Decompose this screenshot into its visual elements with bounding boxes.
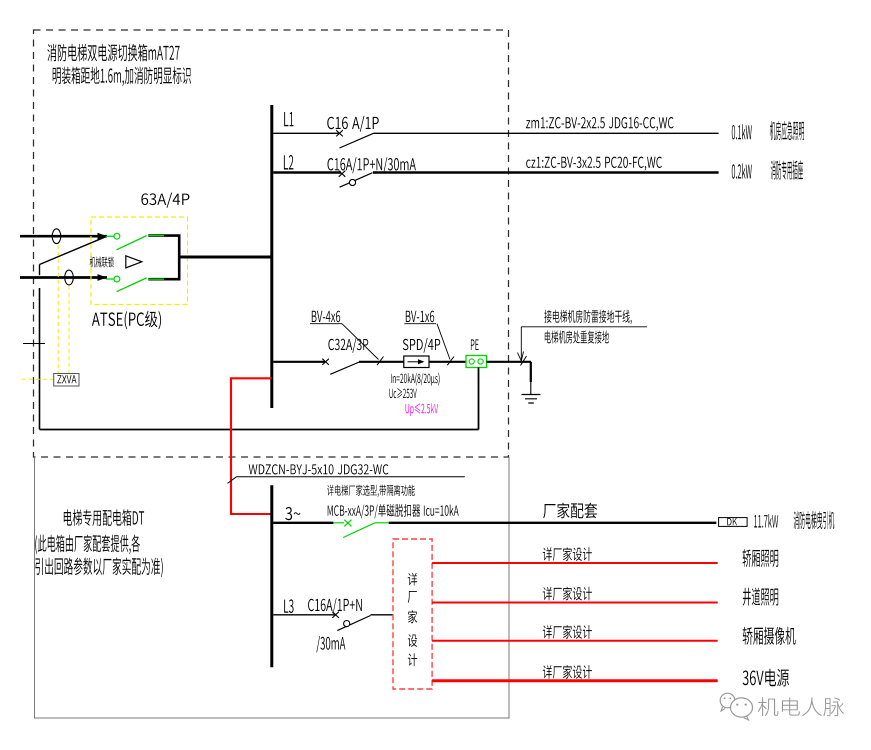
label box title line2 (53, 67, 191, 87)
label load shaft lighting (743, 588, 778, 606)
enclosure mAT27 dashed box (34, 30, 509, 457)
PE terminal circles (469, 359, 474, 364)
label vertical char 家 (408, 610, 417, 623)
breaker 3~ x-mark green (344, 520, 351, 527)
ATSE contact stub 1 (106, 235, 114, 237)
label BV-4x6 (312, 311, 340, 323)
wire L2 seg b (373, 171, 719, 173)
label load L1 (770, 121, 804, 140)
wire L3 seg a (273, 614, 335, 616)
yellow drop line 2 (68, 286, 70, 374)
switch blade changeover (40, 236, 108, 264)
arrowhead source 1 (98, 233, 108, 240)
label factory supplied (543, 503, 597, 519)
label BV-1x6 (406, 311, 434, 323)
underline BV-1x6 (404, 323, 436, 325)
cable marker source 2 (65, 270, 74, 285)
wire 3~ green seg a (333, 522, 344, 524)
wire spd seg d (487, 361, 532, 363)
label power DK (754, 514, 778, 528)
wire red output car lighting (432, 562, 718, 564)
wire PE return vertical (478, 368, 480, 430)
PE terminal box (466, 356, 487, 368)
leader earth arrow (518, 352, 524, 362)
label breaker L3 (308, 598, 362, 614)
leader BV-4x6 (342, 324, 379, 360)
ZXVA box (54, 374, 79, 387)
yellow horiz line (22, 378, 54, 380)
ATSE contact circle 1 (114, 233, 120, 239)
label design note 4 (543, 665, 592, 679)
wire incoming source 2 (20, 276, 107, 279)
breaker L3 x-mark (332, 612, 339, 618)
ATSE contact circle 2 (114, 276, 120, 282)
label mcb note line2 (328, 504, 459, 518)
wire 3~ seg b (389, 522, 717, 524)
label design note 2 (543, 587, 592, 601)
logo text jidianrenmai (758, 697, 844, 716)
label 3~ (285, 507, 300, 520)
wire 3~ seg a (273, 522, 333, 524)
SPD device box (404, 356, 429, 368)
wire L1 seg b (374, 132, 719, 134)
breaker L3 blade (337, 616, 370, 631)
wire L1 seg a (273, 132, 339, 134)
label power L1 (732, 124, 752, 139)
breaker L3 rcd circle (344, 621, 350, 627)
leader feeder tick (228, 477, 237, 484)
enclosure DT solid box (35, 457, 510, 718)
terminal tick c (521, 356, 527, 366)
label cable zm1 (526, 117, 674, 131)
breaker L2 x-mark (339, 171, 346, 177)
wire L2 seg a (273, 171, 341, 173)
label L3 (284, 599, 293, 613)
ATSE interlock triangle (126, 256, 142, 268)
label SPD/4P (403, 338, 440, 353)
wire blade stub down (39, 265, 41, 276)
wire spd seg c (429, 361, 466, 363)
label mechanical interlock (90, 256, 114, 267)
label DT note line2 (35, 558, 162, 578)
wire spd seg b (359, 361, 404, 363)
label PE (471, 339, 479, 350)
ATSE blade 2 green (117, 278, 147, 292)
breaker spd blade (330, 362, 360, 375)
manufacturer design dashed box (393, 539, 432, 689)
label feeder cable (249, 464, 389, 474)
ATSE green seg top (148, 235, 164, 237)
breaker L1 blade (340, 133, 374, 148)
label L2 (284, 155, 294, 170)
label power L2 (732, 163, 752, 178)
label Up spec (406, 403, 439, 416)
wire feeder red link (231, 378, 272, 514)
label mcb note line1 (327, 485, 415, 497)
label L1 (284, 112, 293, 126)
label vertical char 详 (408, 573, 417, 586)
label load DK (794, 511, 835, 529)
wire PE down leg left (39, 288, 41, 430)
logo wechat small bubble (720, 693, 735, 708)
ATSE contact stub 2 (106, 278, 114, 280)
breaker L1 x-mark (336, 130, 343, 136)
label DK (727, 518, 737, 525)
wire spd seg a (273, 361, 325, 363)
label ATSE PC (92, 311, 161, 330)
breaker spd x-mark (322, 359, 329, 365)
leader earth vertical (520, 327, 522, 361)
label breaker L1 (327, 116, 378, 132)
terminal tick a (377, 357, 384, 366)
label breaker C32 (328, 338, 368, 353)
bus main vertical (270, 105, 273, 408)
ATSE yellow dashed outline (91, 217, 188, 305)
terminal tick b (447, 357, 454, 366)
label load car lighting (743, 549, 779, 567)
logo wechat big bubble (731, 698, 753, 717)
SPD symbol arrow (408, 361, 420, 363)
cable marker source 1 (52, 229, 61, 244)
label load 36V supply (743, 669, 789, 687)
label ZXVA (57, 375, 76, 383)
breaker L2 rcd circle (349, 179, 355, 185)
label load car camera (743, 627, 796, 645)
tick mark on PE leg (23, 343, 45, 345)
breaker 3~ blade green (343, 523, 375, 538)
label design note 1 (543, 547, 592, 561)
ATSE body bracket (148, 236, 179, 280)
wire red output car camera (432, 640, 718, 642)
label 30mA (316, 636, 345, 653)
arrowhead source 2 (98, 274, 108, 281)
wire PE return horizontal (40, 429, 479, 431)
label vertical char 设 (408, 634, 417, 647)
label Uc spec (389, 388, 416, 398)
label box title line1 (47, 44, 179, 62)
breaker L2 blade (340, 173, 373, 188)
wire ATSE output (179, 256, 273, 259)
wire L3 seg b (371, 614, 394, 616)
label design note 3 (543, 625, 592, 639)
wire red output 36V supply (432, 679, 718, 682)
label In spec (391, 373, 440, 386)
wire 3~ green seg b (375, 522, 389, 524)
yellow drop line 1 (57, 245, 59, 374)
wire red output shaft lighting (432, 602, 718, 604)
DK terminal box (719, 518, 748, 527)
label load L2 (771, 160, 803, 179)
leader earth horizontal (521, 326, 647, 328)
ATSE green seg bottom (148, 278, 164, 280)
label vertical char 计 (408, 653, 417, 666)
label DT note line1 (35, 535, 140, 555)
wire earth drop thin (530, 382, 532, 395)
label breaker L2 (328, 157, 416, 173)
underline feeder cable (236, 476, 464, 478)
label earth note line1 (544, 310, 631, 325)
label cable cz1 (526, 157, 662, 171)
label vertical char 厂 (408, 591, 417, 603)
leader BV-1x6 (437, 324, 450, 360)
label DT title (64, 509, 144, 526)
underline BV-4x6 (310, 323, 342, 325)
wire earth drop thick (530, 362, 532, 382)
ATSE blade 1 green (117, 236, 147, 250)
ground symbol (522, 395, 541, 404)
label 63A/4P (141, 193, 189, 208)
label earth note line2 (545, 331, 609, 344)
bus DT vertical (270, 485, 273, 667)
wire incoming source 1 (20, 235, 107, 238)
